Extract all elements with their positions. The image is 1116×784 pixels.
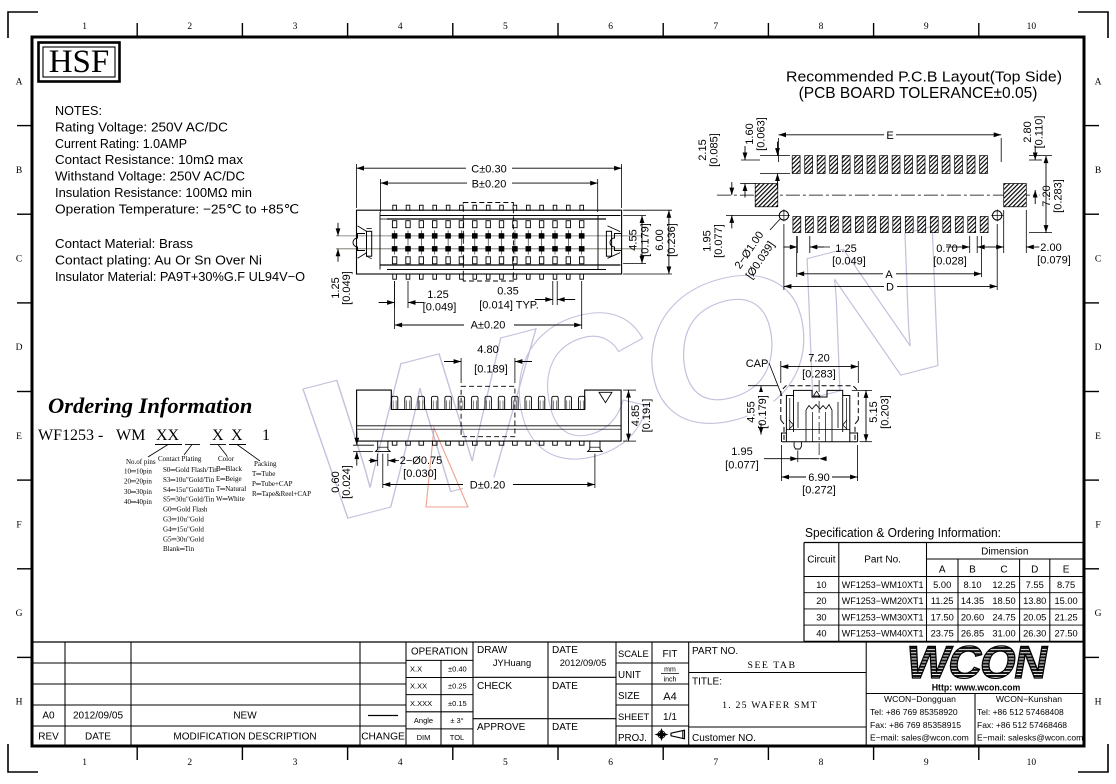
dimension B±0.20 xyxy=(379,179,381,212)
svg-text:F: F xyxy=(16,520,21,530)
svg-text:G3═10u"Gold: G3═10u"Gold xyxy=(163,516,204,524)
svg-text:1.25: 1.25 xyxy=(427,289,448,301)
svg-text:[0.049]: [0.049] xyxy=(423,302,457,314)
svg-text:G0═Gold Flash: G0═Gold Flash xyxy=(163,506,208,514)
svg-text:4: 4 xyxy=(398,758,403,768)
svg-text:2012/09/05: 2012/09/05 xyxy=(560,658,607,668)
svg-text:A: A xyxy=(939,565,946,576)
svg-text:SCALE: SCALE xyxy=(618,648,649,659)
svg-text:WCON−Dongguan: WCON−Dongguan xyxy=(884,694,956,704)
svg-text:27.50: 27.50 xyxy=(1054,629,1077,639)
svg-text:X.X: X.X xyxy=(410,664,422,673)
svg-text:2: 2 xyxy=(187,758,192,768)
svg-text:Part No.: Part No. xyxy=(864,555,901,566)
svg-text:G: G xyxy=(16,609,23,619)
svg-text:1: 1 xyxy=(82,22,87,32)
dimension 1.60 xyxy=(760,155,790,157)
svg-text:[0.110]: [0.110] xyxy=(1034,116,1046,149)
svg-text:Blank═Tin: Blank═Tin xyxy=(163,545,195,553)
svg-text:10: 10 xyxy=(816,580,826,590)
svg-text:24.75: 24.75 xyxy=(992,612,1015,622)
svg-text:[0.030]: [0.030] xyxy=(403,468,437,480)
svg-text:D: D xyxy=(16,343,23,353)
svg-text:9: 9 xyxy=(924,758,929,768)
side view left peg xyxy=(376,441,391,452)
svg-text:7: 7 xyxy=(713,758,718,768)
svg-text:4: 4 xyxy=(398,22,403,32)
svg-text:±0.40: ±0.40 xyxy=(448,664,467,673)
svg-text:NEW: NEW xyxy=(233,711,257,722)
dimension 1.25 row pitch left xyxy=(337,223,339,236)
svg-text:30═30pin: 30═30pin xyxy=(124,488,152,496)
svg-text:SHEET: SHEET xyxy=(618,711,650,722)
dimension 0.35 TYP xyxy=(552,281,554,305)
dimension 0.70 xyxy=(969,236,971,253)
dimension 7.20 end view xyxy=(780,361,782,383)
svg-text:2: 2 xyxy=(187,22,192,32)
pcb right mounting pad xyxy=(1004,184,1027,207)
svg-text:E: E xyxy=(16,432,22,442)
svg-text:Packing: Packing xyxy=(254,460,277,468)
svg-text:Withstand Voltage: 250V AC/DC: Withstand Voltage: 250V AC/DC xyxy=(55,169,245,184)
svg-text:[0.203]: [0.203] xyxy=(880,395,892,429)
dimension 6.00 top view xyxy=(623,209,672,211)
pcb bottom pad row xyxy=(793,217,801,233)
svg-text:6: 6 xyxy=(608,22,613,32)
svg-text:SEE TAB: SEE TAB xyxy=(748,660,797,671)
operation tolerance block xyxy=(406,659,473,661)
svg-text:TITLE:: TITLE: xyxy=(692,677,722,688)
svg-text:2.80: 2.80 xyxy=(1022,121,1034,142)
svg-text:REV: REV xyxy=(38,732,59,743)
svg-text:G5═30u"Gold: G5═30u"Gold xyxy=(163,535,204,543)
svg-text:CAP: CAP xyxy=(746,358,769,370)
svg-text:WF1253−WM10XT1: WF1253−WM10XT1 xyxy=(842,580,924,590)
svg-text:APPROVE: APPROVE xyxy=(477,722,526,733)
svg-text:5: 5 xyxy=(503,22,508,32)
svg-text:WF1253−WM30XT1: WF1253−WM30XT1 xyxy=(842,612,924,622)
dimension A±0.20 top view xyxy=(394,281,396,329)
dimension 4.55 end view xyxy=(748,385,778,387)
svg-text:mm: mm xyxy=(664,667,676,674)
svg-text:2012/09/05: 2012/09/05 xyxy=(73,711,123,722)
dimension 5.15 xyxy=(852,389,872,391)
svg-text:10: 10 xyxy=(1027,22,1037,32)
svg-text:inch: inch xyxy=(664,677,677,684)
svg-text:SIZE: SIZE xyxy=(618,691,640,702)
svg-text:D: D xyxy=(886,281,894,293)
svg-text:NOTES:: NOTES: xyxy=(55,103,102,118)
svg-text:5.00: 5.00 xyxy=(933,580,951,590)
end view bottom nub xyxy=(794,442,801,449)
svg-text:Operation Temperature: −25℃ to: Operation Temperature: −25℃ to +85℃ xyxy=(55,201,299,216)
svg-text:6: 6 xyxy=(608,758,613,768)
svg-text:13.80: 13.80 xyxy=(1023,596,1046,606)
svg-text:4.55: 4.55 xyxy=(746,401,758,422)
end view centerline xyxy=(818,380,820,455)
svg-text:CHANGE: CHANGE xyxy=(361,732,405,743)
watermark WCON outline xyxy=(274,186,977,567)
svg-text:Rating Voltage: 250V AC/DC: Rating Voltage: 250V AC/DC xyxy=(55,119,228,134)
svg-text:Current Rating: 1.0AMP: Current Rating: 1.0AMP xyxy=(55,136,187,151)
svg-text:40═40pin: 40═40pin xyxy=(124,498,152,506)
svg-text:T═Natural: T═Natural xyxy=(216,485,246,493)
dimension 4.55 top view xyxy=(623,215,646,217)
svg-text:OPERATION: OPERATION xyxy=(411,647,468,658)
svg-text:H: H xyxy=(1095,698,1102,708)
top view body outline xyxy=(357,210,622,274)
svg-text:1: 1 xyxy=(82,758,87,768)
scale unit size sheet proj block xyxy=(616,662,689,664)
svg-text:E−mail: salesks@wcon.com: E−mail: salesks@wcon.com xyxy=(977,733,1083,743)
side view body outline xyxy=(357,390,621,441)
svg-text:X.XX: X.XX xyxy=(410,682,427,691)
dimension 7.20 pcb xyxy=(1029,155,1052,157)
svg-text:15.00: 15.00 xyxy=(1054,596,1077,606)
svg-text:5.15: 5.15 xyxy=(868,401,880,422)
svg-text:PART NO.: PART NO. xyxy=(692,646,738,657)
dimension 1.95 end view xyxy=(797,451,799,463)
ordering underlines xyxy=(155,444,182,446)
svg-text:DATE: DATE xyxy=(552,645,578,656)
svg-text:UNIT: UNIT xyxy=(618,670,641,681)
svg-text:± 3°: ± 3° xyxy=(450,716,463,725)
svg-text:[0.077]: [0.077] xyxy=(725,460,759,472)
svg-text:8.75: 8.75 xyxy=(1057,580,1075,590)
svg-text:B±0.20: B±0.20 xyxy=(472,179,507,191)
watermark red triangle xyxy=(426,428,468,507)
svg-text:4.55: 4.55 xyxy=(628,229,640,250)
svg-text:HSF: HSF xyxy=(49,44,110,80)
svg-text:Contact Material: Brass: Contact Material: Brass xyxy=(55,236,193,251)
svg-text:G4═15u"Gold: G4═15u"Gold xyxy=(163,525,204,533)
svg-text:S4═15u"Gold/Tin: S4═15u"Gold/Tin xyxy=(163,486,215,494)
svg-text:20═20pin: 20═20pin xyxy=(124,478,152,486)
svg-text:18.50: 18.50 xyxy=(992,596,1015,606)
side view right peg xyxy=(588,441,603,452)
svg-text:TOL: TOL xyxy=(450,733,464,742)
dimension C±0.30 xyxy=(356,164,358,208)
svg-text:R═Tape&Reel+CAP: R═Tape&Reel+CAP xyxy=(252,490,311,498)
svg-text:A4: A4 xyxy=(663,691,676,703)
svg-text:[0.024]: [0.024] xyxy=(341,465,353,499)
side view dashed section box xyxy=(461,386,515,436)
dimension 2-Ø0.75 xyxy=(377,454,379,466)
svg-text:±0.15: ±0.15 xyxy=(448,699,467,708)
svg-text:6.90: 6.90 xyxy=(808,472,829,484)
svg-text:3: 3 xyxy=(293,22,298,32)
svg-text:WCON: WCON xyxy=(902,636,1051,688)
svg-text:11.25: 11.25 xyxy=(931,596,954,606)
pcb hole left xyxy=(779,211,788,220)
svg-text:FIT: FIT xyxy=(663,649,678,660)
svg-text:[0.049]: [0.049] xyxy=(341,271,353,305)
draw check approve block xyxy=(473,676,616,678)
svg-text:Contact Plating: Contact Plating xyxy=(158,455,202,463)
svg-text:DRAW: DRAW xyxy=(477,645,508,656)
svg-text:Fax: +86 512 57468468: Fax: +86 512 57468468 xyxy=(977,720,1067,730)
svg-text:B═Black: B═Black xyxy=(216,465,242,473)
svg-text:X.XXX: X.XXX xyxy=(410,699,432,708)
top view dashed section box xyxy=(463,203,513,282)
svg-text:[0.283]: [0.283] xyxy=(1053,179,1065,213)
svg-text:T═Tube: T═Tube xyxy=(252,470,275,478)
svg-text:12.25: 12.25 xyxy=(992,580,1015,590)
pcb hole right xyxy=(993,211,1002,220)
svg-text:8: 8 xyxy=(819,758,824,768)
svg-text:0.70: 0.70 xyxy=(936,243,957,255)
svg-text:H: H xyxy=(16,698,23,708)
svg-text:1.95: 1.95 xyxy=(731,446,752,458)
svg-text:[0.014] TYP.: [0.014] TYP. xyxy=(479,300,539,312)
svg-text:[0.236]: [0.236] xyxy=(666,223,678,257)
side view polarity mark xyxy=(599,392,612,402)
svg-text:[0.283]: [0.283] xyxy=(802,369,836,381)
svg-text:1.95: 1.95 xyxy=(702,230,714,251)
svg-text:[0.085]: [0.085] xyxy=(709,133,721,167)
svg-text:G: G xyxy=(1095,609,1102,619)
svg-text:B: B xyxy=(1095,166,1101,176)
svg-text:X: X xyxy=(231,427,243,444)
svg-text:C±0.30: C±0.30 xyxy=(471,164,506,176)
svg-text:Insulation Resistance: 100MΩ m: Insulation Resistance: 100MΩ min xyxy=(55,185,252,200)
svg-text:S3═10u"Gold/Tin: S3═10u"Gold/Tin xyxy=(163,476,215,484)
svg-text:W═White: W═White xyxy=(216,495,245,503)
svg-text:D±0.20: D±0.20 xyxy=(470,479,505,491)
svg-text:WM: WM xyxy=(116,427,145,444)
svg-text:A: A xyxy=(16,77,23,87)
svg-text:0.35: 0.35 xyxy=(497,286,518,298)
dimension 0.60 xyxy=(353,444,374,446)
svg-text:7.20: 7.20 xyxy=(1041,185,1053,206)
svg-text:8: 8 xyxy=(819,22,824,32)
svg-text:P═Tube+CAP: P═Tube+CAP xyxy=(252,480,293,488)
dimension 2.15 xyxy=(741,159,760,161)
svg-text:Angle: Angle xyxy=(414,716,433,725)
svg-text:[0.079]: [0.079] xyxy=(1037,255,1071,267)
svg-text:Recommended P.C.B Layout(Top: Recommended P.C.B Layout(Top Side) xyxy=(786,69,1062,86)
svg-text:1.25: 1.25 xyxy=(835,243,856,255)
dimension D pcb xyxy=(783,224,785,290)
svg-text:DATE: DATE xyxy=(552,722,578,733)
svg-text:A±0.20: A±0.20 xyxy=(471,320,506,332)
svg-text:20.60: 20.60 xyxy=(961,612,984,622)
svg-text:Http: www.wcon.com: Http: www.wcon.com xyxy=(932,683,1021,693)
svg-text:4.80: 4.80 xyxy=(477,344,498,356)
svg-text:B: B xyxy=(16,166,22,176)
svg-text:6.00: 6.00 xyxy=(654,229,666,250)
svg-text:[0.189]: [0.189] xyxy=(474,364,508,376)
svg-text:X: X xyxy=(212,427,224,444)
svg-text:D: D xyxy=(1031,565,1038,576)
side view smt feet xyxy=(392,441,397,445)
svg-text:E: E xyxy=(1095,432,1101,442)
dimension 1.25 bottom pitch xyxy=(394,281,396,308)
svg-text:Fax: +86 769 85358915: Fax: +86 769 85358915 xyxy=(870,720,961,730)
dimension A pcb xyxy=(796,236,798,277)
svg-text:17.50: 17.50 xyxy=(931,612,954,622)
svg-text:Insulator Material: PA9T+30%G.: Insulator Material: PA9T+30%G.F UL94V−O xyxy=(55,269,305,284)
svg-text:CHECK: CHECK xyxy=(477,681,512,692)
dimension E xyxy=(778,138,780,162)
svg-text:1: 1 xyxy=(262,427,270,444)
dimension 2.00 xyxy=(1003,210,1005,253)
svg-text:1. 25 WAFER SMT: 1. 25 WAFER SMT xyxy=(722,700,818,711)
svg-text:21.25: 21.25 xyxy=(1054,612,1077,622)
svg-text:[0.191]: [0.191] xyxy=(641,399,653,433)
svg-text:Dimension: Dimension xyxy=(981,547,1028,558)
dimension 4.80 xyxy=(460,358,462,383)
dimension D±0.20 xyxy=(382,454,384,488)
svg-text:A: A xyxy=(885,269,893,281)
pcb centerline xyxy=(717,194,1040,196)
svg-text:Tel: +86 512 57468408: Tel: +86 512 57468408 xyxy=(977,707,1064,717)
svg-text:±0.25: ±0.25 xyxy=(448,682,467,691)
svg-text:C: C xyxy=(1000,565,1007,576)
dimension 6.90 xyxy=(781,445,783,481)
svg-text:2.15: 2.15 xyxy=(697,139,709,160)
svg-text:9: 9 xyxy=(924,22,929,32)
svg-text:Contact Resistance: 10mΩ max: Contact Resistance: 10mΩ max xyxy=(55,152,244,167)
grid ticks and labels xyxy=(136,23,138,37)
svg-text:E═Beige: E═Beige xyxy=(216,475,242,483)
HSF logo box xyxy=(39,43,120,82)
svg-text:WF1253−WM20XT1: WF1253−WM20XT1 xyxy=(842,596,924,606)
dimension 2.80 xyxy=(1029,159,1042,161)
dimension 1.95 pcb xyxy=(726,214,779,216)
dimension 1.25 pcb xyxy=(796,236,798,253)
projection symbol xyxy=(659,732,664,737)
svg-text:7.55: 7.55 xyxy=(1026,580,1044,590)
top view pin array xyxy=(393,205,397,210)
svg-text:E: E xyxy=(886,130,893,142)
svg-text:Ordering Information: Ordering Information xyxy=(48,393,252,418)
svg-text:8.10: 8.10 xyxy=(963,580,981,590)
svg-text:Color: Color xyxy=(218,455,235,463)
svg-text:MODIFICATION DESCRIPTION: MODIFICATION DESCRIPTION xyxy=(173,732,316,743)
svg-text:Circuit: Circuit xyxy=(807,555,836,566)
side view pins xyxy=(391,396,397,409)
svg-text:XX: XX xyxy=(156,427,180,444)
svg-text:A: A xyxy=(1095,77,1102,87)
svg-text:E: E xyxy=(1063,565,1070,576)
svg-text:F: F xyxy=(1095,520,1100,530)
svg-text:(PCB BOARD TOLERANCE±0.05): (PCB BOARD TOLERANCE±0.05) xyxy=(799,85,1038,102)
svg-text:Contact plating: Au Or Sn Over: Contact plating: Au Or Sn Over Ni xyxy=(55,252,262,267)
svg-text:[0.179]: [0.179] xyxy=(640,223,652,257)
svg-text:20: 20 xyxy=(816,596,826,606)
svg-text:10═10pin: 10═10pin xyxy=(124,468,152,476)
title block grid xyxy=(32,641,1084,643)
wcon logo xyxy=(902,636,1051,688)
svg-text:5: 5 xyxy=(503,758,508,768)
top view right ear xyxy=(608,226,621,258)
svg-text:WF1253 -: WF1253 - xyxy=(38,427,103,444)
svg-text:3: 3 xyxy=(293,758,298,768)
svg-text:Customer NO.: Customer NO. xyxy=(692,733,756,744)
corner marks xyxy=(8,12,38,38)
svg-text:40: 40 xyxy=(816,629,826,639)
svg-text:[0.028]: [0.028] xyxy=(933,256,967,268)
svg-text:WCON−Kunshan: WCON−Kunshan xyxy=(996,694,1062,704)
svg-text:C: C xyxy=(1095,255,1101,265)
svg-text:2.00: 2.00 xyxy=(1040,242,1061,254)
svg-text:1/1: 1/1 xyxy=(663,712,677,723)
svg-text:E−mail: sales@wcon.com: E−mail: sales@wcon.com xyxy=(870,733,969,743)
svg-text:B: B xyxy=(969,565,976,576)
svg-text:DATE: DATE xyxy=(85,732,111,743)
top view left ear xyxy=(358,226,367,258)
svg-text:Tel: +86 769 85358920: Tel: +86 769 85358920 xyxy=(870,707,958,717)
svg-text:S0═Gold Flash/Tin: S0═Gold Flash/Tin xyxy=(163,466,218,474)
wcon address block xyxy=(866,693,1084,695)
svg-text:7: 7 xyxy=(713,22,718,32)
svg-text:DIM: DIM xyxy=(417,733,431,742)
svg-text:Specification & Ordering In: Specification & Ordering Information: xyxy=(805,525,1001,540)
svg-text:[0.179]: [0.179] xyxy=(757,395,769,429)
spec table grid xyxy=(804,542,1083,544)
svg-text:C: C xyxy=(16,255,22,265)
pcb top pad row xyxy=(792,156,800,174)
svg-text:DATE: DATE xyxy=(552,681,578,692)
svg-text:1.60: 1.60 xyxy=(744,123,756,144)
svg-text:PROJ.: PROJ. xyxy=(618,733,647,744)
pcb left mounting pad xyxy=(755,184,778,207)
svg-text:2−Ø0.75: 2−Ø0.75 xyxy=(400,455,443,467)
svg-text:[0.272]: [0.272] xyxy=(802,485,836,497)
end view body xyxy=(786,390,849,441)
svg-text:[0.063]: [0.063] xyxy=(756,117,768,151)
dimension 4.85 xyxy=(623,389,636,391)
svg-text:14.35: 14.35 xyxy=(961,596,984,606)
top view centerlines xyxy=(336,235,642,237)
svg-text:D: D xyxy=(1095,343,1102,353)
ordering leader lines xyxy=(148,445,260,462)
part no block xyxy=(689,672,867,674)
svg-text:JYHuang: JYHuang xyxy=(493,658,531,668)
svg-text:A0: A0 xyxy=(42,711,55,722)
svg-text:20.05: 20.05 xyxy=(1023,612,1046,622)
svg-text:30: 30 xyxy=(816,612,826,622)
svg-text:[0.077]: [0.077] xyxy=(713,224,725,258)
svg-text:No.of pins: No.of pins xyxy=(126,458,156,466)
svg-text:[0.049]: [0.049] xyxy=(832,256,866,268)
svg-text:S5═30u"Gold/Tin: S5═30u"Gold/Tin xyxy=(163,496,215,504)
svg-text:10: 10 xyxy=(1027,758,1037,768)
end view dashed cap outline xyxy=(781,386,859,420)
svg-text:7.20: 7.20 xyxy=(808,353,829,365)
